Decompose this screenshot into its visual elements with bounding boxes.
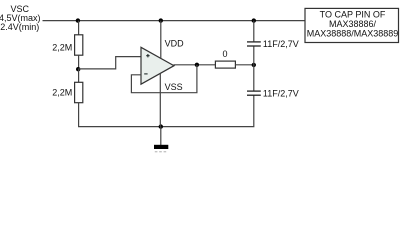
wire VSS supply pin <box>159 73 161 126</box>
wire R1 bottom lead <box>78 55 80 69</box>
svg-text:MAX38886/: MAX38886/ <box>329 19 377 29</box>
wire divider to op-amp noninverting input <box>78 57 141 69</box>
wire top rail VSC to box <box>43 20 306 22</box>
svg-text:TO CAP PIN OF: TO CAP PIN OF <box>320 10 386 20</box>
svg-text:VDD: VDD <box>165 39 185 49</box>
junction top rail / cap trunk <box>252 18 256 22</box>
wire R3 to cap trunk <box>235 64 253 66</box>
node VSC label <box>0 4 41 32</box>
svg-text:VSS: VSS <box>165 82 183 92</box>
resistor R1 2,2M <box>75 35 83 55</box>
node junction R1/R2 divider <box>76 67 80 71</box>
wire ground stub <box>160 127 162 145</box>
wire cap trunk top lead <box>253 21 255 42</box>
svg-text:2.4V(min): 2.4V(min) <box>0 22 39 32</box>
junction bottom rail / ground <box>159 124 163 128</box>
wire VDD supply pin <box>160 21 162 59</box>
resistor R2 2,2M <box>75 82 83 102</box>
wire R2 top lead <box>78 69 80 82</box>
ground <box>154 145 168 152</box>
svg-text:2,2M: 2,2M <box>52 42 72 52</box>
capacitor C1 11F/2,7V <box>247 42 261 46</box>
capacitor C2 11F/2,7V <box>247 91 261 95</box>
junction top rail / R1 <box>76 18 80 22</box>
node output junction <box>195 63 199 67</box>
wire op-amp output <box>174 64 216 66</box>
wire bottom rail R2 to cap trunk <box>79 95 254 126</box>
op-amp U1 <box>141 47 174 84</box>
wire R1 top lead <box>78 21 80 35</box>
junction top rail / VDD <box>159 18 163 22</box>
wire cap trunk middle <box>253 47 255 91</box>
svg-text:2,2M: 2,2M <box>52 88 72 98</box>
wire feedback loop output to inverting input <box>131 65 197 93</box>
box TO CAP PIN OF MAX38886/MAX38888/MAX38889 <box>305 8 399 42</box>
node cap midpoint junction <box>252 63 256 67</box>
svg-text:MAX38888/MAX38889: MAX38888/MAX38889 <box>307 29 399 39</box>
resistor R3 0 <box>215 61 235 68</box>
svg-text:11F/2,7V: 11F/2,7V <box>263 39 299 49</box>
svg-text:0: 0 <box>222 49 227 59</box>
svg-text:11F/2,7V: 11F/2,7V <box>263 89 299 99</box>
